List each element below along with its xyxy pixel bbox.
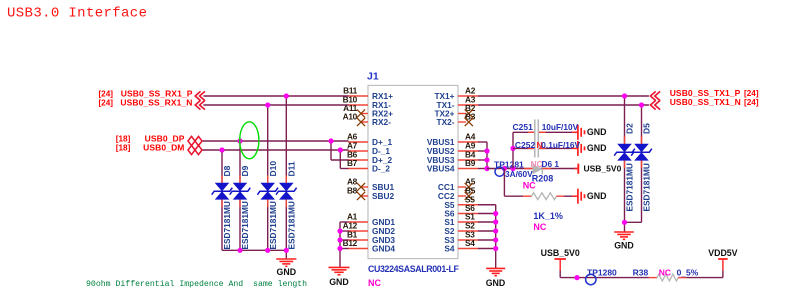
svg-text:D-_2: D-_2: [372, 164, 390, 174]
svg-text:C252: C252: [515, 140, 536, 150]
svg-text:GND: GND: [277, 267, 297, 277]
svg-text:TX2-: TX2-: [437, 117, 455, 127]
svg-text:USB0_SS_TX1_N: USB0_SS_TX1_N: [670, 97, 741, 107]
svg-text:D8: D8: [222, 165, 232, 176]
svg-text:ESD7181MU: ESD7181MU: [268, 201, 278, 249]
svg-text:ESD7181MU: ESD7181MU: [642, 163, 652, 211]
svg-text:[18]: [18]: [116, 134, 131, 143]
svg-text:[24]: [24]: [744, 89, 759, 98]
svg-text:J1: J1: [367, 71, 379, 83]
svg-text:VDD5V: VDD5V: [708, 248, 737, 258]
svg-text:GND: GND: [587, 191, 607, 201]
svg-text:GND: GND: [587, 127, 607, 137]
svg-text:NC: NC: [533, 222, 546, 232]
svg-text:ESD7181MU: ESD7181MU: [287, 201, 297, 249]
svg-text:RX2-: RX2-: [372, 117, 391, 127]
svg-text:D5: D5: [642, 123, 652, 134]
svg-text:S4: S4: [465, 238, 475, 248]
svg-text:USB0_SS_RX1_N: USB0_SS_RX1_N: [120, 97, 192, 107]
svg-text:0_5%: 0_5%: [677, 268, 699, 278]
svg-text:10uF/10V: 10uF/10V: [542, 122, 579, 132]
svg-text:USB3.0 Interface: USB3.0 Interface: [7, 6, 147, 22]
svg-text:ESD7181MU: ESD7181MU: [625, 163, 635, 211]
svg-text:ESD7181MU: ESD7181MU: [222, 201, 232, 249]
svg-text:R38: R38: [633, 267, 649, 277]
svg-text:TP1280: TP1280: [587, 267, 617, 277]
svg-text:USB_5V0: USB_5V0: [584, 164, 622, 174]
svg-text:VBUS4: VBUS4: [427, 164, 455, 174]
svg-text:B7: B7: [347, 158, 358, 168]
svg-text:NC: NC: [659, 268, 671, 278]
svg-text:[24]: [24]: [98, 98, 113, 107]
svg-text:TP1281: TP1281: [494, 159, 524, 169]
svg-text:[18]: [18]: [116, 143, 131, 152]
svg-text:CU3224SASALR001-LF: CU3224SASALR001-LF: [368, 264, 459, 274]
svg-text:1K_1%: 1K_1%: [533, 211, 563, 221]
svg-text:D11: D11: [287, 161, 297, 176]
svg-text:B9: B9: [465, 158, 476, 168]
svg-text:B8: B8: [347, 186, 358, 196]
svg-text:NC: NC: [368, 278, 381, 288]
svg-text:D9: D9: [240, 165, 250, 176]
svg-text:D6 1: D6 1: [542, 159, 560, 169]
svg-text:GND: GND: [486, 278, 506, 288]
svg-text:ESD7181MU: ESD7181MU: [240, 201, 250, 249]
svg-text:USB_5V0: USB_5V0: [541, 248, 580, 258]
svg-text:GND: GND: [329, 277, 349, 287]
svg-text:90ohm Differential Impedence A: 90ohm Differential Impedence And same le…: [86, 279, 307, 289]
svg-text:NC: NC: [523, 181, 536, 191]
svg-text:D10: D10: [268, 161, 278, 177]
svg-text:C251: C251: [513, 122, 534, 132]
svg-text:GND: GND: [614, 240, 634, 250]
svg-text:SBU2: SBU2: [372, 191, 395, 201]
svg-text:0.1uF/16V: 0.1uF/16V: [541, 140, 580, 150]
svg-text:[24]: [24]: [98, 89, 113, 98]
svg-text:GND4: GND4: [372, 244, 395, 254]
svg-text:USB0_DM: USB0_DM: [143, 142, 184, 152]
svg-text:S4: S4: [444, 244, 455, 254]
svg-text:D2: D2: [625, 123, 635, 134]
svg-text:A10: A10: [343, 112, 358, 122]
svg-text:[24]: [24]: [744, 98, 759, 107]
svg-text:3A/60V: 3A/60V: [505, 169, 533, 179]
svg-text:GND: GND: [587, 143, 607, 153]
